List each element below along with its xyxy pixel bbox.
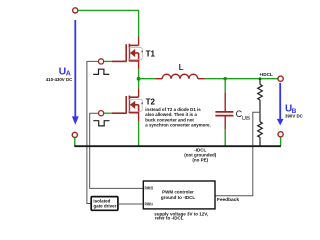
terminal gate T2	[99, 111, 104, 116]
node SW junction T1/T2/L	[137, 77, 141, 81]
wire node to T2 drain	[138, 79, 140, 89]
label PWM B pin	[145, 185, 153, 190]
svg-text:390V DC: 390V DC	[285, 114, 304, 119]
svg-text:refer to -IDCL: refer to -IDCL	[155, 216, 184, 221]
wire T1 source to node	[138, 69, 140, 79]
wire inductor to +IDCL terminal	[205, 78, 278, 80]
resistor R2 (lower divider)	[258, 122, 263, 146]
transistor T2 (low-side MOSFET with body diode)	[112, 96, 139, 114]
box PWM controller	[143, 181, 215, 209]
svg-text:+IDCL: +IDCL	[259, 72, 273, 77]
pulse symbol T1 (high pulse)	[93, 69, 109, 74]
svg-text:UB: UB	[242, 116, 250, 122]
terminal -UA (bottom-left input)	[72, 132, 77, 137]
pulse symbol T2 (low pulse)	[93, 121, 109, 126]
wire T2 source to -IDCL rail	[138, 121, 140, 146]
label PWM controller	[161, 190, 195, 200]
svg-text:PWM A: PWM A	[145, 201, 153, 206]
T2 symbol boundary box	[129, 99, 143, 111]
terminal -IDCL output	[278, 132, 283, 137]
terminal gate T1	[99, 59, 104, 64]
T1 source lead	[138, 61, 140, 69]
wire gate T1 green stub	[104, 60, 112, 62]
capacitor CUB	[215, 92, 233, 129]
T2 source lead	[138, 113, 140, 121]
wire PWM A path: T1 gate to isolated gate driver	[87, 61, 99, 203]
T2 drain lead	[138, 88, 140, 97]
label 390V DC	[285, 114, 304, 119]
wire -IDCL terminal to rail	[280, 137, 282, 146]
T1 symbol boundary box	[129, 48, 143, 60]
label CUB	[236, 109, 250, 122]
label supply voltage	[154, 211, 208, 220]
label isolated gate driver	[93, 198, 116, 208]
rail -IDCL (bottom bus)	[74, 145, 281, 147]
label 410-430V DC	[46, 77, 73, 82]
wire -UA terminal to rail	[74, 138, 76, 146]
svg-text:ground to -IDCL: ground to -IDCL	[161, 195, 195, 200]
label T2	[146, 97, 156, 106]
label UA	[59, 65, 71, 77]
svg-text:(no PE): (no PE)	[192, 157, 208, 162]
svg-text:410-430V DC: 410-430V DC	[46, 77, 73, 82]
node resistor divider top	[259, 77, 262, 80]
wire capacitor to -IDCL rail	[224, 129, 226, 146]
node capacitor junction	[224, 77, 227, 80]
voltage arrow UA	[72, 20, 79, 125]
wire top rail from +UA terminal to T1 drain	[78, 10, 139, 36]
label L	[179, 63, 184, 72]
label PWM A pin	[145, 201, 153, 206]
resistor R1 (upper divider)	[258, 79, 263, 122]
note text about diode D1	[145, 107, 210, 127]
svg-text:gate driver: gate driver	[93, 204, 116, 209]
T1 drain lead	[138, 37, 140, 46]
inductor L	[155, 74, 205, 78]
svg-text:isolated: isolated	[93, 198, 110, 203]
label -IDCL net	[184, 147, 216, 162]
label +IDCL	[259, 72, 273, 77]
voltage arrow UB	[277, 83, 284, 126]
terminal +IDCL output	[278, 76, 283, 81]
svg-text:Feedback: Feedback	[217, 197, 239, 203]
label Feedback	[217, 197, 239, 203]
label UB	[285, 104, 297, 115]
wire gate driver to PWM A	[118, 203, 143, 205]
terminal +UA (top-left input terminal)	[73, 8, 78, 13]
svg-text:PWM B: PWM B	[145, 185, 153, 190]
wire feedback tap	[215, 112, 260, 195]
wire node to inductor	[139, 78, 156, 80]
wire PWM B path: T2 gate to PWM controller	[90, 113, 144, 188]
svg-text:T1: T1	[146, 49, 156, 58]
wire gate T2 green stub	[104, 112, 112, 114]
svg-text:PWM controler: PWM controler	[162, 190, 194, 195]
svg-text:a synchron converter anymore.: a synchron converter anymore.	[145, 122, 210, 127]
svg-text:L: L	[179, 63, 184, 72]
wire node to capacitor	[224, 79, 226, 93]
transistor T1 (high-side MOSFET with body diode)	[112, 44, 139, 62]
label T1	[146, 49, 156, 58]
svg-text:T2: T2	[146, 97, 156, 106]
box isolated gate driver	[91, 197, 118, 211]
